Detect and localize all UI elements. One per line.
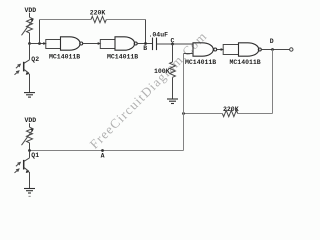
gate U1D input box xyxy=(223,45,238,55)
svg-text:MC14011B: MC14011B xyxy=(185,59,216,66)
svg-text:Q2: Q2 xyxy=(31,56,39,63)
variable resistor VR1 (photoresistor) xyxy=(22,17,34,35)
wire node A rail xyxy=(30,150,184,152)
wire top-rail right vertical to node B xyxy=(145,20,147,44)
svg-text:MC14011B: MC14011B xyxy=(49,53,80,60)
svg-text:220K: 220K xyxy=(223,106,239,113)
wire Q1 emitter to ground xyxy=(29,172,31,188)
wire 100K to ground xyxy=(172,77,174,98)
wire D down feedback xyxy=(272,50,274,114)
node C junction xyxy=(171,43,174,46)
junction feedback/A-rail vertical xyxy=(182,112,185,115)
svg-text:.04uF: .04uF xyxy=(149,31,169,38)
arrowhead into U1B xyxy=(98,42,102,45)
wire node to gate U1A input xyxy=(30,43,46,45)
svg-text:220K: 220K xyxy=(90,10,106,17)
node A junction xyxy=(101,149,104,152)
variable resistor VR2 (photoresistor) xyxy=(22,127,34,145)
watermark fragment at bottom edge xyxy=(29,196,31,197)
phototransistor Q1 xyxy=(15,151,40,174)
ground under Q2 xyxy=(24,93,35,98)
phototransistor Q2 xyxy=(15,44,40,75)
gate U1A input box xyxy=(46,40,61,49)
svg-text:D: D xyxy=(270,38,274,45)
wire C to 100K xyxy=(172,44,174,62)
svg-text:VDD: VDD xyxy=(25,7,37,14)
svg-text:C: C xyxy=(171,37,175,44)
resistor R3 220K (feedback) xyxy=(222,106,238,117)
svg-text:100K: 100K xyxy=(154,68,170,75)
junction at VR1/Q2/gate input xyxy=(28,42,31,45)
svg-text:A: A xyxy=(101,152,105,159)
wire vertical U1C input to A rail xyxy=(183,54,185,151)
wire 220K to corner xyxy=(106,19,145,21)
svg-text:B: B xyxy=(143,45,147,52)
NAND gate U1D xyxy=(230,43,262,66)
wire top-rail left vertical xyxy=(39,20,41,44)
wire top rail to 220K xyxy=(40,19,92,21)
svg-text:MC14011B: MC14011B xyxy=(230,59,261,66)
node B junction xyxy=(144,42,147,45)
NAND gate U1A xyxy=(49,37,83,61)
ground under 100K xyxy=(167,99,178,104)
resistor R1 220K xyxy=(90,10,107,23)
arrowhead into U1A xyxy=(43,42,47,45)
wire 220K to vertical junction xyxy=(184,113,223,115)
wire capacitor to gate U1C xyxy=(157,43,194,45)
wire U1C lower input corner xyxy=(184,53,194,55)
wire U1C out to U1D xyxy=(217,49,223,51)
capacitor C1 .04uF xyxy=(149,31,169,50)
svg-text:MC14011B: MC14011B xyxy=(107,53,138,60)
wire VR1 to node xyxy=(29,33,31,44)
resistor R2 100K xyxy=(154,62,175,77)
junction at Q1 collector xyxy=(28,149,31,152)
wire VDD to VR1 xyxy=(29,13,31,17)
wire Q2 emitter to ground xyxy=(29,74,31,93)
svg-text:VDD: VDD xyxy=(25,117,37,124)
wire feedback right segment xyxy=(238,113,273,115)
junction feedback/top rail xyxy=(38,42,41,45)
arrowhead into U1D xyxy=(221,48,225,51)
wire VDD to VR2 xyxy=(29,123,31,127)
node D junction xyxy=(271,48,274,51)
NAND gate U1B xyxy=(107,37,138,61)
NAND gate U1C xyxy=(185,43,217,66)
wire U1B out to capacitor xyxy=(137,43,152,45)
output terminal (open circle) xyxy=(290,48,293,51)
gate U1B input box xyxy=(100,40,115,49)
wire U1D out to terminal xyxy=(261,49,289,51)
wire VR2 to node A xyxy=(29,143,31,151)
wire U1A out to U1B xyxy=(83,43,100,45)
ground under Q1 xyxy=(24,189,35,194)
svg-text:Q1: Q1 xyxy=(31,152,39,159)
